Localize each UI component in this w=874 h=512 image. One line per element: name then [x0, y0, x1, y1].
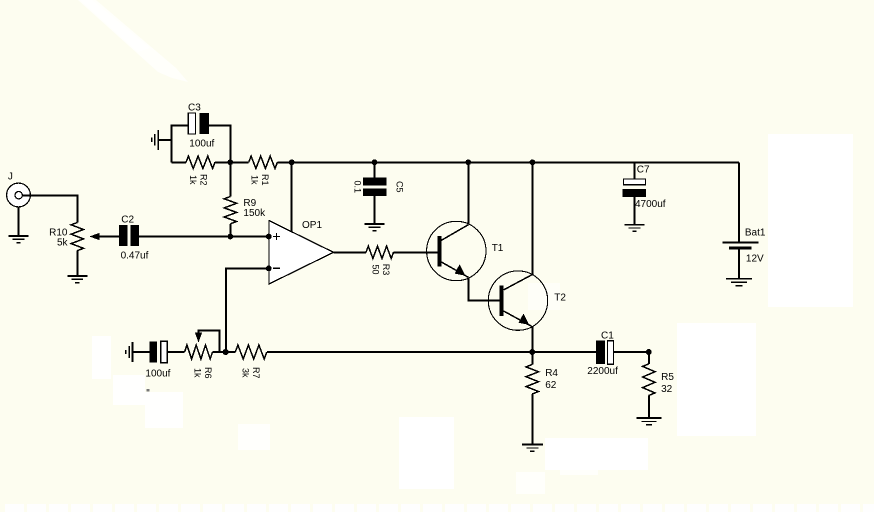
ground (under J) — [9, 236, 29, 243]
wire R9 to + input — [229, 224, 231, 237]
node rail/op-amp V+ — [289, 159, 295, 165]
wire R10 to ground — [76, 251, 78, 276]
svg-text:C5: C5 — [395, 181, 405, 193]
wire T2 collector — [531, 162, 533, 274]
wire node to R1 — [230, 161, 248, 163]
wire J to ground — [18, 207, 20, 236]
wire C5 to ground — [374, 196, 376, 224]
ground (left of 100uf cap) — [126, 342, 150, 362]
battery Bat1 — [723, 243, 759, 250]
svg-text:R2: R2 — [198, 174, 208, 186]
svg-text:100uf: 100uf — [145, 369, 170, 380]
wire node to R5 — [648, 352, 650, 364]
svg-text:1k: 1k — [250, 175, 260, 185]
ground (under R4) — [522, 445, 543, 452]
svg-text:0.1: 0.1 — [352, 181, 362, 194]
wire R2 to node — [215, 161, 230, 163]
node T2 collector/rail — [530, 159, 536, 165]
wire battery to ground — [738, 249, 740, 278]
wire R6 to node — [213, 351, 226, 353]
op-amp OP1 — [269, 221, 334, 284]
ground (under Bat1) — [726, 279, 752, 286]
transistor T1 — [427, 221, 486, 280]
node C5/rail — [372, 159, 378, 165]
node R9/+input junction — [228, 234, 234, 240]
svg-text:C7: C7 — [637, 165, 650, 176]
svg-text:1k: 1k — [192, 368, 202, 378]
svg-text:R3: R3 — [381, 264, 391, 276]
wire T1 collector — [467, 162, 469, 224]
wire node to R9 — [229, 162, 231, 196]
wire C3 right branch — [209, 125, 230, 162]
svg-text:C2: C2 — [121, 214, 134, 225]
capacitor C3 — [188, 113, 209, 134]
wire C7 to ground — [634, 197, 636, 225]
svg-text:50: 50 — [371, 264, 381, 274]
wire C3-left to R2 — [172, 161, 186, 163]
svg-text:5k: 5k — [57, 238, 69, 249]
wire R5 to ground — [648, 396, 650, 419]
connector J — [7, 183, 31, 207]
svg-text:62: 62 — [545, 380, 557, 391]
R10 wiper arrow — [90, 233, 121, 240]
node C1/R5 — [646, 349, 652, 355]
resistor R7 — [235, 345, 266, 359]
node op-amp - pin — [266, 266, 272, 272]
svg-text:J: J — [8, 172, 13, 183]
wire T1 emitter to T2 base — [469, 277, 500, 300]
svg-text:T2: T2 — [554, 293, 566, 304]
resistor R4 — [526, 364, 538, 394]
potentiometer R6 — [185, 345, 213, 359]
power rail wire — [277, 161, 739, 163]
capacitor 100uf — [150, 341, 168, 362]
wire node to R7 — [226, 351, 236, 353]
svg-text:R6: R6 — [203, 367, 213, 379]
capacitor C2 — [120, 226, 138, 245]
wire - input — [226, 268, 269, 352]
svg-text:T1: T1 — [492, 243, 504, 254]
op-amp - symbol — [273, 267, 280, 269]
ground (under C7) — [625, 225, 645, 232]
svg-text:2200uf: 2200uf — [587, 366, 618, 377]
wire rail to C5 — [374, 162, 376, 177]
svg-text:12V: 12V — [746, 254, 764, 265]
node T2 emitter/R4 — [529, 349, 535, 355]
resistor R2 — [186, 156, 215, 168]
svg-text:Bat1: Bat1 — [745, 228, 766, 239]
svg-text:R7: R7 — [251, 367, 261, 379]
resistor R3 — [366, 246, 394, 258]
transistor T2 — [488, 271, 547, 330]
stray speck — [147, 389, 150, 392]
svg-text:0.47uf: 0.47uf — [121, 250, 149, 261]
potentiometer R10 — [71, 223, 83, 251]
capacitor C7 — [623, 179, 647, 197]
svg-text:R1: R1 — [260, 174, 270, 186]
wire op-amp V+ — [291, 162, 293, 232]
svg-text:1k: 1k — [188, 175, 198, 185]
svg-text:150k: 150k — [243, 208, 266, 219]
svg-text:C3: C3 — [188, 103, 201, 114]
wire 100uf to R6 — [167, 351, 184, 353]
node R6/R7/feedback — [223, 349, 229, 355]
node op-amp + pin — [266, 234, 272, 240]
op-amp + symbol — [273, 233, 280, 240]
ground (under R10) — [67, 276, 87, 283]
svg-text:4700uf: 4700uf — [635, 199, 666, 210]
ground (left of C3) — [152, 130, 172, 150]
wire R4 to ground — [531, 394, 533, 445]
resistor R9 — [224, 197, 236, 224]
wire J to R10 top — [22, 196, 77, 223]
svg-text:R4: R4 — [545, 368, 558, 379]
ground (under C5) — [365, 224, 385, 231]
node T1 collector/rail — [465, 159, 471, 165]
wire node to R4 — [531, 352, 533, 364]
svg-text:R5: R5 — [661, 372, 674, 383]
capacitor C1 — [596, 341, 614, 365]
wire R7 to C1 — [267, 351, 596, 353]
wire op-amp output — [334, 251, 367, 253]
ground (under R5) — [636, 418, 661, 425]
wire rail to battery — [738, 162, 740, 242]
svg-text:3k: 3k — [240, 368, 250, 378]
wire C1 to R5 — [614, 351, 649, 353]
svg-text:32: 32 — [661, 384, 673, 395]
wire C7 stub — [634, 162, 636, 179]
wire C2 to op-amp + input — [138, 236, 269, 238]
resistor R1 — [249, 156, 278, 168]
svg-text:OP1: OP1 — [302, 220, 322, 231]
wire R3 to T1 base — [394, 251, 438, 253]
svg-text:C1: C1 — [601, 331, 614, 342]
wire C3 left branch — [172, 125, 189, 162]
resistor R5 — [643, 364, 655, 396]
R6 wiper arrow — [195, 331, 220, 353]
capacitor C5 — [363, 177, 387, 196]
node R2/R1/R9 — [227, 159, 233, 165]
wire T2 emitter down — [531, 327, 533, 353]
svg-text:100uf: 100uf — [189, 139, 214, 150]
